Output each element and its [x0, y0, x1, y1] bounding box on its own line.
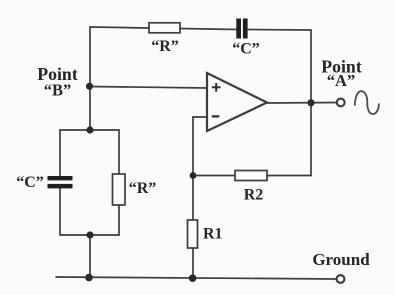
svg-text:Ground: Ground [312, 250, 370, 269]
wire: top rail from C to right corner [247, 29, 311, 32]
wire: top rail left segment to resistor R [90, 27, 149, 28]
capacitor "C" (left branch) [48, 176, 73, 188]
resistor R2 [235, 171, 267, 181]
wire: left vertical from top-left corner down to parallel section [89, 27, 91, 130]
wire: right vertical from top corner down to R2 [310, 30, 312, 176]
svg-text:“A”: “A” [327, 71, 355, 90]
wire: R2 right to right vertical [267, 175, 311, 177]
wire: op-amp output to point A terminal [267, 102, 337, 105]
ground open terminal [337, 275, 345, 283]
node A junction dot [307, 99, 314, 106]
capacitor "C" (top) [236, 19, 247, 39]
wire: ground rail [56, 277, 337, 279]
wire: top rail between R and C [180, 29, 237, 30]
wire: junction to R2 left [193, 175, 235, 177]
wire: op-amp - input down to R1/R2 junction [193, 117, 207, 176]
resistor "R" (left branch) [113, 174, 126, 205]
svg-text:“C”: “C” [232, 41, 260, 58]
svg-text:“R”: “R” [129, 180, 157, 197]
svg-text:R2: R2 [244, 187, 264, 204]
op-amp U1 [207, 73, 267, 131]
svg-text:“C”: “C” [16, 174, 44, 191]
op-amp - input marker [212, 115, 220, 117]
svg-text:“R”: “R” [151, 38, 179, 55]
wire: left branch above capacitor C [59, 130, 61, 177]
wire: right branch below resistor R [118, 205, 120, 235]
wire: right branch above resistor R [118, 130, 120, 174]
wire: parallel section top bar [60, 129, 119, 131]
svg-text:R1: R1 [203, 226, 223, 243]
resistor R1 [188, 220, 198, 248]
node B junction dot [86, 83, 93, 90]
wire: junction down to R1 [192, 176, 194, 221]
sine wave symbol at point A [355, 91, 379, 114]
wire: stem from parallel section to ground rail [89, 235, 91, 278]
wire: left branch below capacitor C [59, 188, 61, 235]
point A open terminal [337, 99, 345, 107]
wire: parallel section bottom bar [60, 234, 119, 236]
svg-text:“B”: “B” [44, 81, 72, 100]
wire: R1 bottom to ground rail [192, 248, 194, 278]
junction dot on ground rail below parallel section [85, 274, 93, 282]
resistor "R" (top) [149, 23, 180, 33]
op-amp + input marker [212, 83, 221, 92]
junction dot on ground rail below R1 [189, 274, 197, 282]
junction dot at parallel section bottom [86, 231, 93, 238]
wire: node B to op-amp + input [90, 87, 207, 89]
junction dot at parallel section top [86, 126, 93, 133]
junction dot at R1/R2 node [190, 172, 197, 179]
